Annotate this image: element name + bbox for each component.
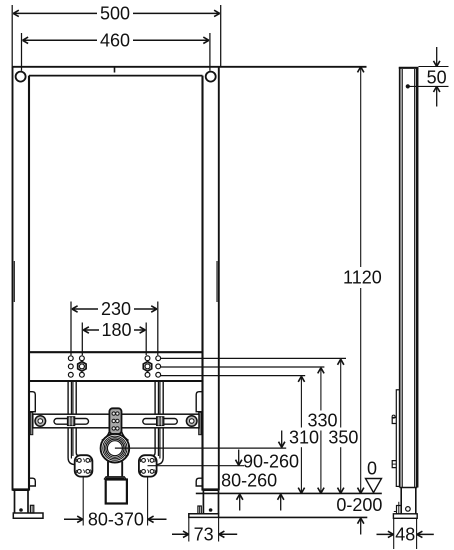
mounting plate bottom edge [29, 380, 203, 382]
bracket leader line [148, 465, 245, 467]
left rail bottom edge [13, 488, 30, 491]
side profile bottom edge [400, 487, 418, 489]
cross bracket bar [33, 414, 199, 428]
bar hole right [186, 416, 197, 427]
right base plate [189, 514, 219, 518]
lowered floor line [219, 516, 368, 518]
slot nut right [157, 417, 164, 426]
side hole dot [406, 84, 410, 88]
dimension 1120 line [360, 68, 362, 268]
dimension 73 extension lines [188, 518, 190, 542]
right rail bracket tab upper [196, 392, 202, 412]
drain pipe box [106, 480, 127, 504]
left rail weld seam [13, 261, 15, 302]
side foot anchor hole [406, 507, 411, 512]
bracket height arrow up from floor [239, 495, 241, 511]
mounting plate top edge [29, 351, 203, 353]
side mounting plate [396, 390, 399, 487]
dimension 80-370 arrows [64, 518, 83, 520]
center mark on top crossbar [114, 68, 116, 73]
dimension 310 line [300, 378, 302, 428]
left base plate [13, 513, 43, 518]
bar hole left [35, 416, 46, 427]
dimension 50 arrow top [436, 47, 438, 66]
left rail bracket tab lower [29, 478, 35, 486]
dimension 230 extension lines [70, 302, 72, 356]
svg-text:80-370: 80-370 [88, 510, 144, 530]
svg-text:460: 460 [100, 31, 130, 51]
left foot anchor dot [19, 508, 23, 512]
slot nut left [68, 417, 75, 426]
svg-text:500: 500 [100, 4, 130, 24]
right rail bracket tab lower [196, 478, 202, 486]
dimension 330 line [320, 369, 322, 411]
dimension 460 line and arrows [23, 39, 98, 41]
left foot tube [14, 491, 16, 513]
svg-text:50: 50 [427, 67, 447, 87]
left strut [68, 382, 77, 465]
svg-text:0-200: 0-200 [336, 495, 382, 515]
bracket height arrow down to bracket leader [238, 450, 240, 465]
dimension 73 arrows [172, 533, 188, 535]
leader line bottom hole row [161, 375, 305, 377]
drain leader line [115, 447, 286, 449]
side plate screw lower [392, 461, 396, 468]
left rail bracket tab upper [29, 392, 35, 412]
side foot clamp [397, 506, 402, 514]
flush elbow fitting [109, 408, 121, 434]
drain socket rings [101, 434, 130, 463]
right foot clamp screw [198, 506, 201, 514]
top crossbar top edge with extension toward 1120 dimension [12, 66, 367, 68]
top hole right [206, 72, 216, 82]
svg-text:180: 180 [101, 320, 131, 340]
bar end strip left [30, 412, 33, 434]
fixing holes left inner column [80, 356, 85, 361]
dimension 230 line and arrows [72, 308, 98, 310]
svg-text:73: 73 [194, 525, 214, 545]
svg-text:48: 48 [395, 525, 415, 545]
right foot anchor dot [209, 508, 213, 512]
svg-text:90-260: 90-260 [243, 452, 299, 472]
svg-text:80-260: 80-260 [221, 471, 277, 491]
right strut [154, 382, 163, 465]
dimension 180 line and arrows [83, 329, 99, 331]
svg-text:0: 0 [367, 459, 377, 479]
svg-text:350: 350 [328, 427, 358, 447]
dimension 48 extension lines [393, 519, 395, 550]
svg-text:230: 230 [101, 299, 131, 319]
right rail [218, 67, 220, 491]
top hole left [16, 72, 26, 82]
bar slot left [54, 419, 89, 425]
hex nut left [78, 362, 86, 372]
datum triangle [366, 479, 382, 493]
left rail [12, 67, 14, 491]
right rail bottom edge [203, 488, 219, 491]
left foot clamp screw [30, 505, 33, 513]
dimension 500 line and arrows [13, 12, 97, 14]
side plate screw upper [392, 418, 396, 424]
side foot tube [400, 488, 402, 514]
fixing holes left outer column [68, 356, 73, 361]
wall bracket right [139, 455, 157, 476]
side base plate [393, 514, 417, 519]
dimension 500 extension lines [11, 5, 13, 66]
right rail weld seam [216, 261, 218, 302]
dimension 50 arrow bottom [436, 87, 438, 106]
bar slot right [143, 419, 178, 425]
leader line top hole row [161, 357, 346, 359]
dimension 80-370 extension lines [82, 477, 84, 526]
bar end strip right [199, 412, 202, 434]
hex nut right [143, 362, 151, 372]
flare to drain socket [102, 432, 110, 441]
drain height arrow up from floor [280, 495, 282, 511]
leader line middle hole row [161, 366, 325, 368]
drain socket tab [126, 452, 129, 456]
fixing holes right outer column [156, 356, 161, 361]
right foot tube [202, 491, 204, 514]
dimension 180 extension lines [81, 323, 83, 356]
floor line [196, 492, 382, 494]
drain pipe neck [107, 462, 109, 477]
drain height arrow down to drain leader [281, 431, 283, 447]
dimension 50 leader lines [419, 66, 449, 68]
drain pipe flange [104, 477, 126, 480]
side view profile [399, 67, 401, 488]
wall bracket left [75, 455, 93, 476]
dimension 460 extension lines [21, 33, 23, 71]
dimension 48 arrows [377, 533, 394, 535]
fixing holes right inner column [145, 356, 150, 361]
0-200 arrow up to lowered floor [360, 519, 362, 535]
dimension 350 line [340, 360, 342, 428]
svg-text:1120: 1120 [343, 268, 382, 288]
top crossbar bottom edge [29, 75, 203, 77]
